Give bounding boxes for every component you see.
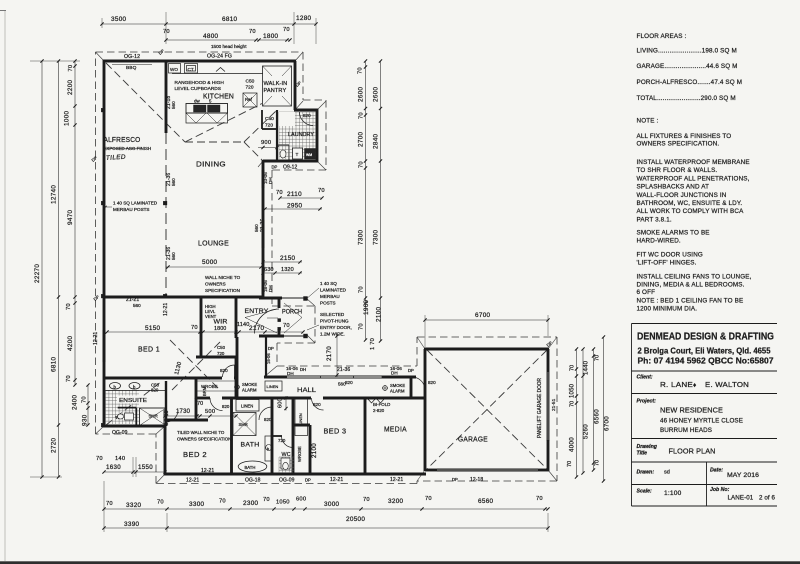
svg-text:7300: 7300 bbox=[373, 229, 380, 245]
svg-text:70: 70 bbox=[276, 190, 283, 196]
svg-text:3200: 3200 bbox=[388, 498, 404, 505]
svg-text:2840: 2840 bbox=[373, 133, 380, 149]
svg-text:70: 70 bbox=[570, 365, 576, 371]
svg-text:ENSUITE: ENSUITE bbox=[119, 398, 147, 404]
svg-text:BED 3: BED 3 bbox=[324, 427, 347, 436]
svg-text:560: 560 bbox=[338, 382, 346, 387]
svg-text:SMOKE: SMOKE bbox=[242, 382, 257, 387]
svg-text:1 40 SQ: 1 40 SQ bbox=[320, 281, 337, 286]
svg-text:70: 70 bbox=[197, 401, 203, 407]
svg-text:2720: 2720 bbox=[51, 437, 58, 453]
svg-text:LOUNGE: LOUNGE bbox=[198, 239, 229, 248]
svg-text:DP: DP bbox=[408, 368, 414, 373]
svg-text:LAUNDRY: LAUNDRY bbox=[288, 132, 314, 138]
svg-text:DH: DH bbox=[268, 177, 273, 184]
svg-text:PORCH-ALFRESCO.......47.4 SQ M: PORCH-ALFRESCO.......47.4 SQ M bbox=[637, 79, 743, 86]
svg-text:140: 140 bbox=[115, 456, 125, 462]
svg-text:C50: C50 bbox=[246, 79, 255, 85]
svg-text:1500 head height: 1500 head height bbox=[211, 44, 247, 49]
svg-text:2200: 2200 bbox=[67, 79, 74, 95]
svg-text:FLOOR PLAN: FLOOR PLAN bbox=[669, 447, 716, 456]
svg-text:6810: 6810 bbox=[222, 16, 238, 23]
svg-text:70: 70 bbox=[425, 496, 432, 502]
svg-text:VENT: VENT bbox=[205, 314, 217, 319]
svg-text:O9-12: O9-12 bbox=[283, 165, 298, 171]
svg-text:70: 70 bbox=[82, 396, 88, 403]
svg-text:PART 3.8.1.: PART 3.8.1. bbox=[637, 216, 672, 223]
svg-text:Client:: Client: bbox=[637, 375, 653, 381]
svg-text:1000: 1000 bbox=[64, 110, 71, 126]
svg-text:1280: 1280 bbox=[296, 15, 312, 22]
svg-text:TILED WALL NICHE TO: TILED WALL NICHE TO bbox=[177, 430, 225, 435]
svg-text:70: 70 bbox=[359, 161, 365, 168]
svg-text:820: 820 bbox=[220, 368, 228, 373]
svg-text:2600: 2600 bbox=[373, 86, 380, 102]
svg-text:3390: 3390 bbox=[124, 521, 140, 528]
svg-text:6700: 6700 bbox=[475, 312, 491, 319]
svg-text:70: 70 bbox=[219, 499, 226, 505]
svg-text:C50: C50 bbox=[265, 116, 274, 122]
svg-text:70: 70 bbox=[66, 303, 72, 310]
svg-text:LAMINATED: LAMINATED bbox=[320, 288, 347, 293]
svg-text:PIVOT-HUNG: PIVOT-HUNG bbox=[320, 319, 349, 324]
svg-text:DINING: DINING bbox=[196, 160, 226, 169]
svg-text:Scale:: Scale: bbox=[637, 489, 653, 495]
svg-text:SMOKE ALARMS TO BE: SMOKE ALARMS TO BE bbox=[637, 230, 710, 237]
svg-text:12740: 12740 bbox=[51, 185, 58, 204]
svg-text:4200: 4200 bbox=[67, 335, 74, 351]
svg-text:70: 70 bbox=[359, 112, 365, 119]
svg-text:70: 70 bbox=[106, 501, 113, 507]
svg-text:70: 70 bbox=[595, 460, 601, 466]
svg-text:4000: 4000 bbox=[569, 437, 576, 452]
svg-text:1800: 1800 bbox=[263, 33, 279, 40]
svg-text:12-21: 12-21 bbox=[186, 478, 199, 484]
svg-text:Ph: 07 4194 5962 QBCC No:658: Ph: 07 4194 5962 QBCC No:65807 bbox=[638, 357, 774, 366]
svg-text:70: 70 bbox=[318, 188, 325, 194]
svg-text:E. WALTON: E. WALTON bbox=[705, 380, 749, 389]
svg-text:OG-09: OG-09 bbox=[112, 430, 128, 436]
svg-text:1320: 1320 bbox=[281, 267, 294, 273]
svg-text:ENTRY DOOR,: ENTRY DOOR, bbox=[320, 325, 352, 330]
svg-text:OWNERS SPECIFICATION: OWNERS SPECIFICATION bbox=[177, 437, 231, 442]
svg-text:WROBE: WROBE bbox=[297, 446, 302, 462]
svg-text:5150: 5150 bbox=[145, 325, 161, 332]
svg-text:6560: 6560 bbox=[478, 498, 494, 505]
svg-text:b: b bbox=[267, 447, 269, 451]
svg-text:DINING, MEDIA & ALL BEDROOMS.: DINING, MEDIA & ALL BEDROOMS. bbox=[637, 282, 745, 289]
svg-text:GARAGE......................44: GARAGE......................44.6 SQ M bbox=[637, 63, 738, 70]
svg-text:1050: 1050 bbox=[570, 383, 576, 398]
svg-text:560: 560 bbox=[171, 252, 176, 260]
svg-text:1 70: 1 70 bbox=[370, 338, 376, 350]
svg-text:820: 820 bbox=[303, 113, 311, 118]
svg-text:Project:: Project: bbox=[637, 399, 657, 405]
svg-text:Job No:: Job No: bbox=[710, 487, 730, 493]
svg-text:BBQ: BBQ bbox=[126, 65, 137, 71]
svg-text:ALARM: ALARM bbox=[390, 389, 405, 394]
svg-text:FLOOR AREAS :: FLOOR AREAS : bbox=[637, 33, 687, 40]
svg-text:2400: 2400 bbox=[72, 394, 79, 410]
svg-text:820: 820 bbox=[428, 380, 436, 385]
svg-text:4800: 4800 bbox=[203, 33, 219, 40]
svg-text:70: 70 bbox=[157, 500, 164, 506]
svg-text:1440: 1440 bbox=[584, 360, 590, 375]
svg-text:12-21: 12-21 bbox=[163, 303, 169, 316]
svg-text:5260: 5260 bbox=[583, 424, 590, 439]
svg-text:WM: WM bbox=[306, 153, 312, 157]
svg-text:Drawn:: Drawn: bbox=[637, 470, 655, 476]
svg-text:720: 720 bbox=[278, 438, 286, 443]
svg-text:WALL-FLOOR JUNCTIONS IN: WALL-FLOOR JUNCTIONS IN bbox=[637, 192, 727, 199]
svg-text:12-21: 12-21 bbox=[201, 468, 214, 474]
svg-text:LINEN: LINEN bbox=[298, 413, 303, 425]
svg-text:6560: 6560 bbox=[594, 409, 601, 424]
svg-text:1.2M WIDE.: 1.2M WIDE. bbox=[320, 332, 345, 337]
svg-text:3320: 3320 bbox=[126, 502, 142, 509]
svg-text:2150: 2150 bbox=[280, 255, 296, 262]
svg-text:2170: 2170 bbox=[249, 325, 265, 332]
svg-text:16-06: 16-06 bbox=[266, 353, 271, 364]
svg-text:R. LANE: R. LANE bbox=[660, 380, 693, 389]
svg-text:70: 70 bbox=[570, 401, 576, 407]
svg-text:2600: 2600 bbox=[358, 86, 365, 102]
svg-text:RANGEHOOD & HIGH: RANGEHOOD & HIGH bbox=[175, 80, 225, 86]
svg-text:PANELIFT GARAGE DOOR: PANELIFT GARAGE DOOR bbox=[537, 378, 543, 438]
svg-text:2170: 2170 bbox=[326, 346, 333, 361]
svg-text:22270: 22270 bbox=[34, 264, 41, 283]
svg-text:DP: DP bbox=[268, 346, 274, 351]
svg-text:Ref: Ref bbox=[245, 97, 253, 102]
svg-text:SPECIFICATION: SPECIFICATION bbox=[205, 288, 240, 293]
svg-text:OWNERS SPECIFICATION.: OWNERS SPECIFICATION. bbox=[637, 141, 720, 148]
svg-text:560: 560 bbox=[133, 303, 141, 308]
svg-text:7300: 7300 bbox=[358, 229, 365, 245]
svg-text:dw: dw bbox=[194, 99, 200, 104]
svg-text:70: 70 bbox=[536, 496, 543, 502]
svg-text:OG-24 FG: OG-24 FG bbox=[207, 54, 232, 60]
svg-text:3300: 3300 bbox=[189, 501, 205, 508]
svg-text:ALL WORK TO COMPLY WITH BCA: ALL WORK TO COMPLY WITH BCA bbox=[637, 208, 745, 215]
svg-text:70: 70 bbox=[283, 27, 290, 33]
svg-text:SPLASHBACKS AND AT: SPLASHBACKS AND AT bbox=[637, 184, 710, 191]
svg-text:12-21: 12-21 bbox=[93, 332, 99, 345]
svg-text:900: 900 bbox=[261, 140, 271, 146]
svg-text:BURRUM HEADS: BURRUM HEADS bbox=[660, 427, 712, 434]
svg-text:C50: C50 bbox=[217, 345, 226, 350]
svg-text:46 HONEY MYRTLE CLOSE: 46 HONEY MYRTLE CLOSE bbox=[660, 418, 743, 425]
svg-text:DP: DP bbox=[272, 165, 278, 170]
svg-text:1960: 1960 bbox=[363, 299, 370, 315]
svg-text:LIVING.......................1: LIVING.......................198.0 SQ M bbox=[637, 48, 737, 55]
svg-text:630: 630 bbox=[264, 267, 274, 273]
svg-text:LEVEL CUPBOARDS: LEVEL CUPBOARDS bbox=[175, 86, 221, 92]
svg-text:SMOKE: SMOKE bbox=[390, 383, 405, 388]
svg-text:1200 MINIMUM DIA.: 1200 MINIMUM DIA. bbox=[637, 306, 698, 313]
svg-text:20500: 20500 bbox=[346, 516, 365, 523]
svg-text:1730: 1730 bbox=[176, 409, 191, 415]
svg-text:PANTRY: PANTRY bbox=[264, 88, 287, 94]
svg-text:720: 720 bbox=[217, 351, 225, 356]
svg-text:WALK-IN: WALK-IN bbox=[264, 81, 288, 87]
svg-text:21-36: 21-36 bbox=[337, 367, 350, 373]
svg-text:KITCHEN: KITCHEN bbox=[203, 94, 234, 101]
svg-text:12-21: 12-21 bbox=[330, 477, 343, 483]
svg-text:2700: 2700 bbox=[358, 131, 365, 147]
svg-text:70: 70 bbox=[66, 375, 72, 382]
svg-text:2950: 2950 bbox=[287, 203, 303, 210]
svg-text:MEDIA: MEDIA bbox=[384, 425, 407, 434]
svg-text:3500: 3500 bbox=[111, 16, 127, 23]
svg-text:820: 820 bbox=[345, 380, 353, 385]
svg-text:LANE-01: LANE-01 bbox=[728, 495, 754, 502]
svg-text:CT: CT bbox=[188, 67, 194, 72]
svg-text:1140: 1140 bbox=[237, 322, 249, 328]
svg-text:70: 70 bbox=[359, 286, 365, 293]
svg-text:DP: DP bbox=[305, 478, 311, 483]
svg-text:DP: DP bbox=[452, 477, 458, 482]
svg-text:'LIFT-OFF' HINGES.: 'LIFT-OFF' HINGES. bbox=[637, 260, 697, 267]
svg-text:560: 560 bbox=[171, 178, 176, 186]
svg-text:ALARM: ALARM bbox=[242, 388, 257, 393]
svg-text:1 40 SQ LAMINATED: 1 40 SQ LAMINATED bbox=[113, 201, 158, 206]
svg-text:9470: 9470 bbox=[67, 209, 74, 225]
svg-text:SHR: SHR bbox=[149, 414, 158, 419]
svg-text:DENMEAD DESIGN & DRAFTING: DENMEAD DESIGN & DRAFTING bbox=[637, 332, 774, 343]
svg-text:70: 70 bbox=[595, 355, 601, 361]
svg-text:70: 70 bbox=[358, 67, 364, 74]
svg-text:820: 820 bbox=[151, 388, 159, 393]
svg-text:820: 820 bbox=[222, 404, 230, 409]
svg-text:70: 70 bbox=[263, 497, 270, 503]
svg-text:FIT WC DOOR USING: FIT WC DOOR USING bbox=[637, 252, 703, 259]
svg-text:70: 70 bbox=[249, 29, 256, 35]
svg-text:NOTE : BED 1 CEILING FAN TO BE: NOTE : BED 1 CEILING FAN TO BE bbox=[637, 297, 744, 304]
svg-text:2100: 2100 bbox=[376, 306, 383, 322]
svg-text:LINEN: LINEN bbox=[267, 384, 279, 389]
svg-text:POSTS: POSTS bbox=[320, 301, 336, 306]
svg-text:70: 70 bbox=[359, 323, 365, 330]
svg-text:600: 600 bbox=[296, 497, 306, 503]
svg-text:21-51: 21-51 bbox=[551, 398, 557, 411]
svg-text:6700: 6700 bbox=[604, 416, 611, 431]
svg-text:12-18: 12-18 bbox=[470, 477, 483, 483]
svg-text:820: 820 bbox=[264, 417, 272, 422]
svg-text:1050: 1050 bbox=[276, 500, 290, 506]
svg-text:720: 720 bbox=[246, 85, 254, 91]
svg-text:BATH: BATH bbox=[241, 442, 260, 449]
svg-text:70: 70 bbox=[163, 29, 170, 35]
svg-text:WATERPROOF ALL PENETRATIONS,: WATERPROOF ALL PENETRATIONS, bbox=[637, 175, 750, 182]
svg-text:TOTAL.......................29: TOTAL.......................290.0 SQ M bbox=[637, 95, 736, 102]
svg-text:Drawing: Drawing bbox=[637, 444, 658, 450]
svg-text:2 of 6: 2 of 6 bbox=[759, 495, 776, 502]
svg-text:DH: DH bbox=[287, 371, 294, 376]
svg-text:NEW RESIDENCE: NEW RESIDENCE bbox=[660, 408, 723, 415]
svg-text:720: 720 bbox=[265, 123, 273, 129]
svg-text:MAY 2016: MAY 2016 bbox=[727, 472, 759, 479]
svg-text:WIR: WIR bbox=[214, 319, 228, 326]
svg-text:sd: sd bbox=[664, 470, 670, 476]
svg-text:2 Brolga Court, Eli Waters, Ql: 2 Brolga Court, Eli Waters, Qld. 4655 bbox=[638, 347, 772, 356]
svg-text:DH: DH bbox=[391, 371, 398, 376]
svg-text:BATH: BATH bbox=[245, 465, 256, 470]
svg-text:70: 70 bbox=[96, 456, 103, 462]
svg-text:INSTALL CEILING FANS TO LOUNGE: INSTALL CEILING FANS TO LOUNGE, bbox=[637, 274, 752, 281]
svg-text:MERBAU POSTS: MERBAU POSTS bbox=[113, 207, 150, 212]
svg-text:2-820: 2-820 bbox=[373, 408, 385, 413]
svg-text:WALL NICHE TO: WALL NICHE TO bbox=[205, 275, 241, 280]
svg-text:TILED: TILED bbox=[106, 154, 127, 162]
svg-text:OG-12: OG-12 bbox=[124, 54, 140, 60]
svg-text:12-21: 12-21 bbox=[390, 477, 403, 483]
svg-text:820: 820 bbox=[313, 402, 321, 407]
svg-text:1:100: 1:100 bbox=[664, 490, 682, 497]
svg-text:6 OFF: 6 OFF bbox=[637, 289, 656, 296]
svg-text:600: 600 bbox=[278, 398, 284, 408]
svg-text:BED 2: BED 2 bbox=[183, 450, 207, 459]
svg-text:BI-FOLD: BI-FOLD bbox=[373, 402, 390, 407]
svg-text:6810: 6810 bbox=[51, 356, 58, 372]
svg-text:WO: WO bbox=[170, 67, 178, 72]
svg-text:GARAGE: GARAGE bbox=[458, 435, 488, 444]
svg-text:5000: 5000 bbox=[202, 259, 218, 266]
svg-text:HARD-WIRED.: HARD-WIRED. bbox=[637, 238, 681, 245]
svg-text:Title: Title bbox=[637, 451, 648, 457]
svg-text:1800: 1800 bbox=[214, 326, 226, 332]
svg-text:LINEN: LINEN bbox=[241, 404, 253, 409]
svg-text:2100: 2100 bbox=[311, 443, 318, 458]
svg-text:WROBE: WROBE bbox=[201, 384, 218, 389]
svg-text:70: 70 bbox=[363, 497, 370, 503]
svg-text:TO SHR FLOOR & WALLS.: TO SHR FLOOR & WALLS. bbox=[637, 167, 718, 174]
svg-text:OG-09: OG-09 bbox=[279, 478, 295, 484]
svg-text:OWNERS: OWNERS bbox=[205, 282, 226, 287]
svg-text:3000: 3000 bbox=[324, 501, 340, 508]
svg-text:1550: 1550 bbox=[138, 464, 153, 471]
svg-text:ENTRY: ENTRY bbox=[245, 308, 269, 315]
svg-text:930: 930 bbox=[82, 414, 89, 426]
svg-text:2110: 2110 bbox=[287, 191, 302, 198]
svg-text:OG-18: OG-18 bbox=[245, 478, 261, 484]
svg-text:SELECTED: SELECTED bbox=[320, 312, 345, 317]
svg-text:70: 70 bbox=[283, 323, 290, 329]
svg-text:Date:: Date: bbox=[710, 468, 723, 474]
svg-text:MERBAU: MERBAU bbox=[320, 294, 340, 299]
svg-text:ALL FIXTURES & FINISHES TO: ALL FIXTURES & FINISHES TO bbox=[637, 133, 732, 140]
svg-text:1630: 1630 bbox=[106, 464, 121, 471]
svg-text:T: T bbox=[296, 152, 299, 157]
svg-text:70: 70 bbox=[191, 325, 198, 331]
svg-text:SHR: SHR bbox=[239, 422, 248, 427]
svg-text:HALL: HALL bbox=[297, 387, 316, 394]
svg-text:70: 70 bbox=[68, 65, 74, 72]
svg-text:ALFRESCO: ALFRESCO bbox=[104, 137, 141, 144]
svg-text:500: 500 bbox=[205, 409, 215, 415]
svg-text:NOTE :: NOTE : bbox=[637, 118, 659, 125]
svg-text:INSTALL WATERPROOF MEMBRANE: INSTALL WATERPROOF MEMBRANE bbox=[637, 159, 750, 166]
svg-text:21-36: 21-36 bbox=[260, 219, 266, 232]
svg-text:2300: 2300 bbox=[243, 500, 259, 507]
svg-text:70: 70 bbox=[567, 461, 573, 467]
svg-text:DH: DH bbox=[300, 367, 306, 372]
svg-text:560: 560 bbox=[171, 101, 176, 109]
svg-text:DH: DH bbox=[268, 285, 273, 292]
svg-text:OG-15: OG-15 bbox=[164, 410, 170, 426]
svg-text:BED 1: BED 1 bbox=[138, 345, 160, 354]
svg-text:560: 560 bbox=[254, 224, 259, 232]
svg-text:BATHROOM, WC, ENSUITE & LDY.: BATHROOM, WC, ENSUITE & LDY. bbox=[637, 200, 743, 207]
